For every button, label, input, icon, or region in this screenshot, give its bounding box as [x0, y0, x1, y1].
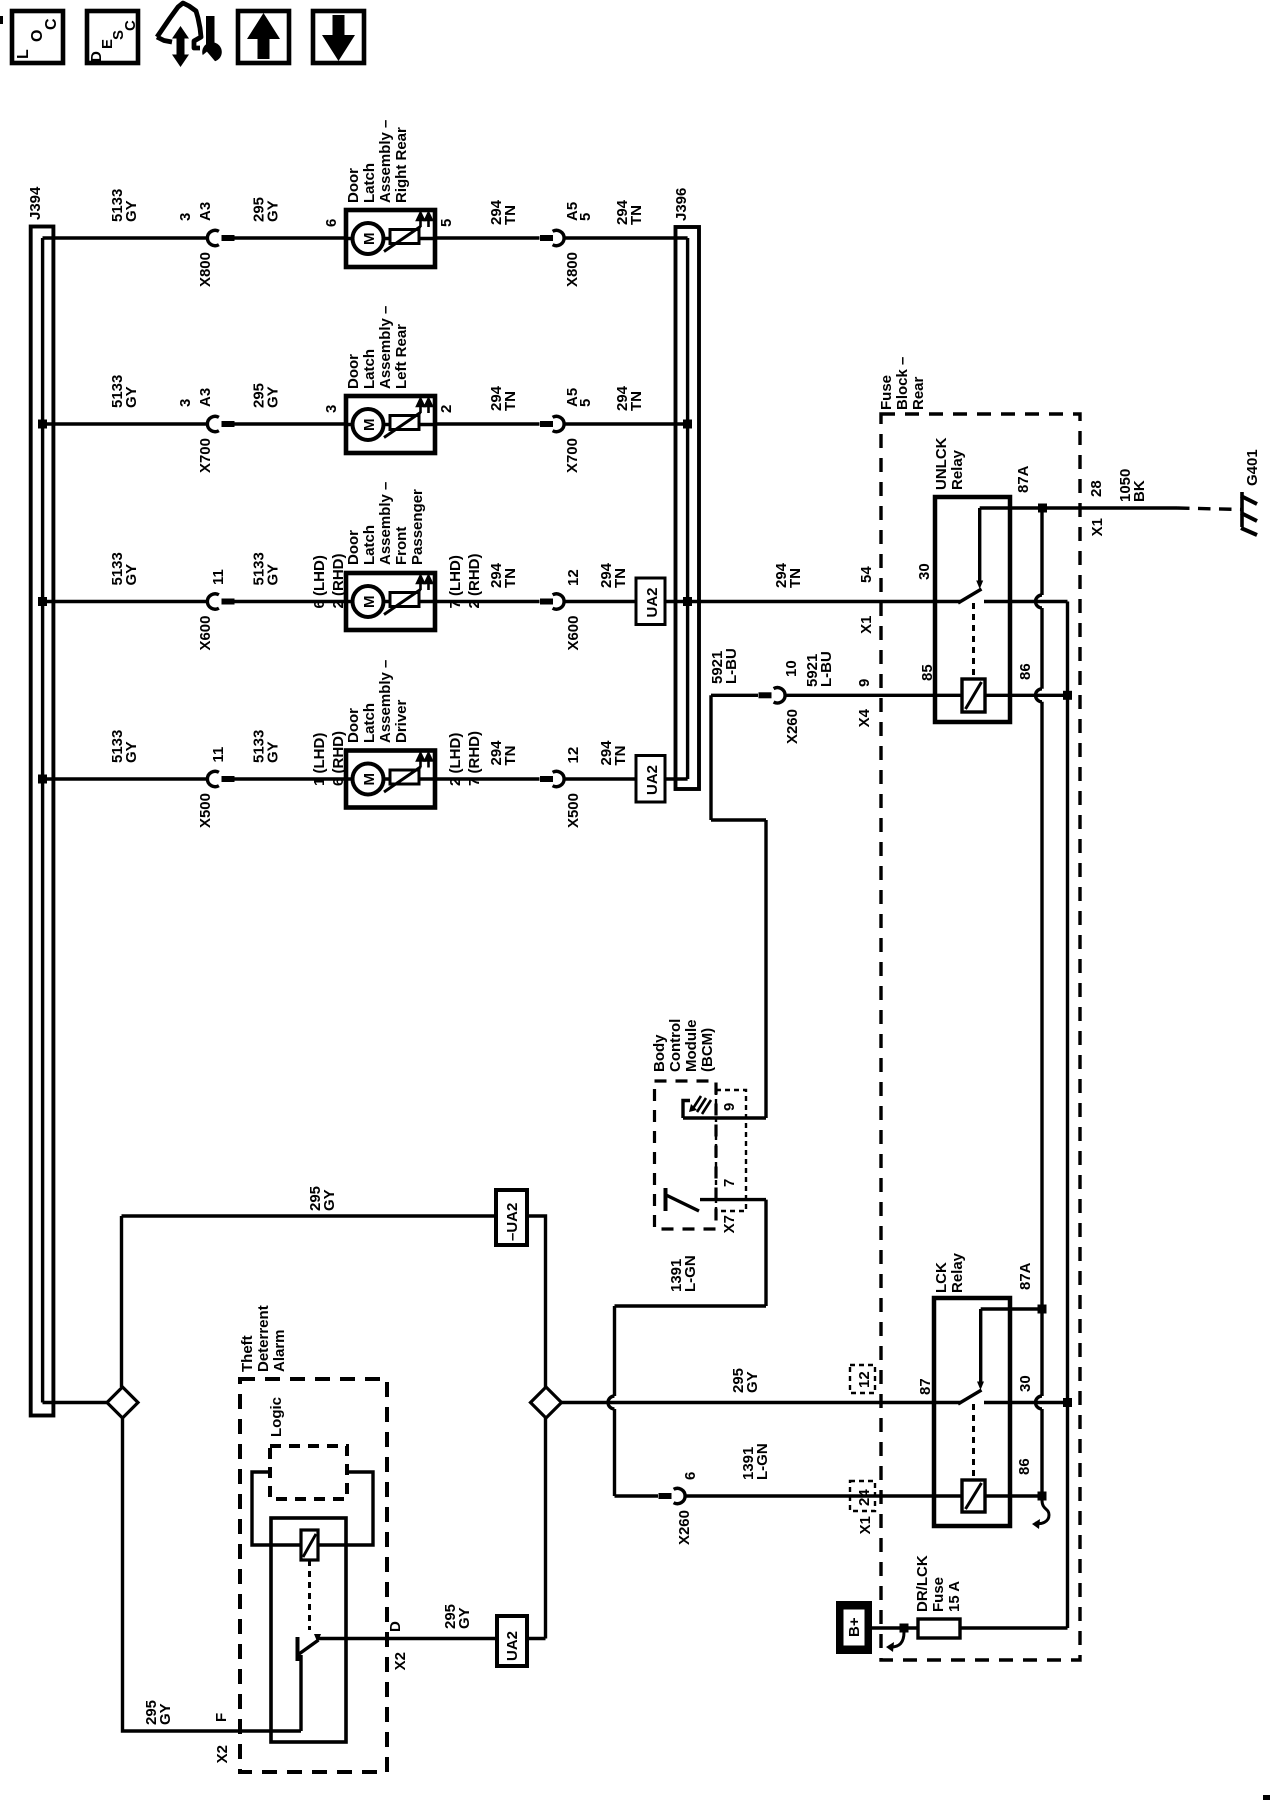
- toolbar icon adjust (outline arrow, double arrow, wrench): [157, 3, 222, 67]
- wire 5921 L-BU: [683, 648, 766, 1118]
- logic clip left: [252, 1472, 301, 1545]
- wire row4 UA2 to J396: [665, 777, 688, 780]
- svg-text:12: 12: [856, 1371, 873, 1388]
- vertical B+ feed rail: [1066, 602, 1069, 1629]
- thermal element row1: [390, 230, 419, 244]
- wire J394 to splice diamond 1: [43, 1401, 108, 1404]
- svg-text:X600: X600: [565, 616, 582, 651]
- LCK coil: [962, 1480, 985, 1512]
- svg-text:24: 24: [856, 1489, 873, 1506]
- wire UNLCK switch output to B+ feed: [984, 600, 1068, 603]
- svg-text:X1: X1: [857, 1516, 874, 1534]
- junction J396 row2: [683, 420, 692, 429]
- svg-text:86: 86: [1016, 1458, 1033, 1475]
- svg-text:5: 5: [438, 219, 455, 227]
- thermal element row3: [390, 593, 419, 607]
- svg-text:UA2: UA2: [644, 587, 661, 617]
- wire splice2 down to theft alarm: [544, 1418, 547, 1639]
- svg-text:D: D: [88, 51, 105, 62]
- door latch assembly front passenger box: [345, 482, 435, 630]
- svg-text:295GY: 295GY: [251, 197, 282, 222]
- motor M row1: [353, 223, 384, 254]
- thermal element row2: [390, 416, 419, 430]
- svg-text:X700: X700: [197, 438, 214, 473]
- wire 294 TN row4: [435, 777, 540, 780]
- connector X260 pin 6: [659, 1493, 672, 1499]
- svg-text:G401: G401: [1244, 449, 1261, 486]
- wire 294 TN row1 to J396: [563, 236, 688, 239]
- wire 294 TN row3: [435, 600, 540, 603]
- svg-text:F: F: [213, 1713, 230, 1722]
- toolbar button move down: [313, 11, 364, 63]
- svg-text:X800: X800: [197, 252, 214, 287]
- svg-text:B+: B+: [846, 1617, 863, 1637]
- svg-text:54: 54: [858, 566, 875, 583]
- svg-text:X800: X800: [564, 252, 581, 287]
- svg-text:J394: J394: [27, 186, 44, 220]
- wire 294 TN row3 to UA2: [563, 600, 636, 603]
- svg-text:C: C: [43, 18, 60, 30]
- svg-text:X500: X500: [565, 793, 582, 828]
- svg-text:X4: X4: [856, 708, 873, 727]
- page corner mark: [1263, 1795, 1270, 1800]
- svg-text:X260: X260: [676, 1510, 693, 1545]
- svg-text:5921L-BU: 5921L-BU: [709, 648, 740, 684]
- wire 5133 GY row1: [43, 236, 209, 239]
- motor M row3: [353, 586, 384, 617]
- door latch assembly driver box: [345, 660, 435, 808]
- BCM driver pin 9: [683, 1101, 690, 1119]
- arrows row2: [417, 399, 424, 413]
- wire 295 GY row1: [235, 236, 347, 239]
- arrows row4: [417, 754, 424, 768]
- svg-text:2: 2: [438, 405, 455, 413]
- theft feed riser: [299, 1655, 302, 1731]
- connector X260 pin 10: [759, 692, 772, 698]
- continuation arrow below LCK 86: [1035, 1500, 1049, 1524]
- splice diamond 1: [107, 1387, 138, 1418]
- wire B+ to fuse: [872, 1626, 918, 1629]
- svg-text:1391L-GN: 1391L-GN: [740, 1443, 771, 1480]
- svg-text:3: 3: [323, 405, 340, 413]
- wire 5133 GY row3: [43, 600, 209, 603]
- svg-text:87A: 87A: [1017, 1262, 1034, 1290]
- toolbar button LOC: [12, 11, 63, 63]
- svg-text:J396: J396: [673, 188, 690, 221]
- wire fuse to feed rail: [960, 1626, 1068, 1629]
- svg-text:D: D: [387, 1621, 404, 1632]
- svg-text:X1: X1: [1089, 518, 1106, 536]
- svg-text:1391L-GN: 1391L-GN: [668, 1255, 699, 1292]
- pin box 24 X1: [850, 1481, 875, 1511]
- svg-text:295GY: 295GY: [307, 1186, 338, 1211]
- wire LCK 30 output: [984, 1401, 1068, 1404]
- battery B+: [836, 1601, 872, 1654]
- UNLCK coil: [962, 679, 985, 712]
- motor M row2: [353, 409, 384, 440]
- wire 5133 GY row4: [43, 777, 209, 780]
- arrows row1: [417, 213, 424, 227]
- svg-text:295GY: 295GY: [251, 383, 282, 408]
- svg-text:11: 11: [210, 569, 227, 585]
- motor M row4: [353, 764, 384, 795]
- wire splice1 up to splice pack -UA2: [120, 1216, 123, 1387]
- wire 1391 L-GN to LCK relay: [684, 1494, 962, 1497]
- svg-text:10: 10: [783, 660, 800, 677]
- svg-text:O: O: [29, 30, 46, 42]
- wire 294 TN row4 to UA2: [563, 777, 636, 780]
- door latch assembly left rear box: [345, 306, 435, 453]
- LCK switch: [958, 1390, 982, 1404]
- svg-text:5921L-BU: 5921L-BU: [804, 651, 835, 687]
- svg-text:30: 30: [916, 563, 933, 580]
- wire 1050 BK: [980, 506, 1177, 509]
- svg-text:12: 12: [565, 747, 582, 764]
- svg-text:A3: A3: [197, 202, 214, 221]
- svg-text:7: 7: [721, 1179, 738, 1187]
- svg-text:UA2: UA2: [644, 765, 661, 795]
- svg-text:X1: X1: [858, 616, 875, 634]
- connector X600 left row3: [207, 594, 218, 609]
- in-line harness connector J394: [27, 186, 53, 1416]
- svg-text:X260: X260: [784, 709, 801, 744]
- wire 295 GY row2: [235, 422, 347, 425]
- svg-text:A3: A3: [197, 388, 214, 407]
- wire LCK 86: [985, 1494, 1042, 1497]
- svg-text:X2: X2: [392, 1652, 409, 1670]
- svg-text:X600: X600: [197, 616, 214, 651]
- svg-text:X2: X2: [214, 1745, 231, 1763]
- junction J396 row3: [683, 597, 692, 606]
- svg-text:3: 3: [177, 399, 194, 407]
- svg-text:12: 12: [565, 569, 582, 586]
- wire 294 TN row1: [435, 236, 540, 239]
- pin box 12 X1: [850, 1365, 875, 1393]
- thermal element row4: [390, 770, 419, 784]
- ground G401: [1241, 449, 1261, 535]
- svg-text:30: 30: [1017, 1375, 1034, 1392]
- wire -UA2 to splice diamond 2: [527, 1216, 546, 1387]
- svg-text:86: 86: [1017, 663, 1034, 680]
- connector X700 right row2: [540, 421, 553, 427]
- fuse block rear box: [881, 414, 1080, 1660]
- LCK coil actuator dashed: [972, 1404, 975, 1480]
- svg-text:UA2: UA2: [504, 1631, 521, 1661]
- svg-text:87A: 87A: [1015, 465, 1032, 493]
- connector X500 right row4: [540, 776, 553, 782]
- svg-text:295GY: 295GY: [730, 1368, 761, 1393]
- svg-text:9: 9: [856, 679, 873, 687]
- svg-text:X7: X7: [721, 1215, 738, 1233]
- BCM pin boxes: [716, 1090, 746, 1211]
- splice pack UA2 row4: [636, 756, 665, 803]
- wire theft alarm output D: [319, 1637, 498, 1640]
- svg-text:Logic: Logic: [268, 1397, 285, 1437]
- wire 294 TN row3 J396 to UNLCK relay: [688, 600, 961, 603]
- UNLCK coil actuator dashed: [972, 603, 975, 679]
- svg-text:295GY: 295GY: [442, 1604, 473, 1629]
- relay UNLCK: [919, 437, 1034, 722]
- junction J394 row3: [38, 597, 47, 606]
- svg-text:–UA2: –UA2: [504, 1203, 521, 1241]
- svg-text:6: 6: [682, 1472, 699, 1480]
- vertical feed 87A rail: [1036, 508, 1043, 1496]
- svg-text:85: 85: [919, 664, 936, 681]
- wire row3 UA2 to J396: [665, 600, 688, 603]
- svg-text:295GY: 295GY: [143, 1700, 174, 1725]
- continuation arrow at B+: [891, 1632, 904, 1647]
- svg-text:C: C: [122, 20, 139, 31]
- page edge mark: [0, 16, 3, 24]
- toolbar button DESC: [87, 11, 139, 63]
- wire splice1 down to theft alarm feed: [123, 1418, 302, 1731]
- theft switch: [296, 1637, 300, 1661]
- UNLCK switch: [958, 589, 982, 603]
- svg-text:M: M: [361, 773, 378, 786]
- BCM switch pin 7: [664, 1188, 668, 1211]
- junction J394 row4: [38, 775, 47, 784]
- theft relay housing: [271, 1518, 346, 1742]
- svg-text:87: 87: [917, 1378, 934, 1395]
- svg-text:M: M: [361, 596, 378, 609]
- door latch assembly right rear box: [345, 120, 435, 267]
- connector X600 right row3: [540, 599, 553, 605]
- connector X800 left row1: [207, 230, 218, 245]
- toolbar button move up: [238, 11, 289, 63]
- splice diamond 2: [531, 1387, 562, 1418]
- BCM box: [655, 1081, 717, 1229]
- wire 5921 L-BU b: [784, 694, 962, 697]
- splice pack UA2 theft: [497, 1616, 527, 1666]
- svg-text:L: L: [15, 49, 32, 59]
- logic clip right: [318, 1472, 373, 1545]
- theft coil actuator dashed: [308, 1560, 311, 1630]
- splice pack UA2 row3: [636, 578, 665, 625]
- wire 294 TN row2: [435, 422, 540, 425]
- svg-text:28: 28: [1088, 480, 1105, 497]
- svg-text:X700: X700: [564, 438, 581, 473]
- wire 1391 L-GN from BCM: [608, 1200, 766, 1496]
- wire 5133 GY row3 b: [235, 600, 347, 603]
- theft relay coil: [301, 1530, 318, 1560]
- svg-text:3: 3: [177, 213, 194, 221]
- wire 294 TN row2 to J396: [563, 422, 688, 425]
- wire UNLCK 86: [985, 694, 1068, 697]
- connector X500 left row4: [207, 771, 218, 786]
- wire UA2 theft to splice2 riser: [527, 1637, 546, 1640]
- wire 5133 GY row2: [43, 422, 209, 425]
- arrows row3: [417, 576, 424, 590]
- svg-text:X500: X500: [197, 793, 214, 828]
- svg-text:M: M: [361, 233, 378, 246]
- svg-text:11: 11: [210, 747, 227, 763]
- splice pack -UA2: [496, 1190, 527, 1245]
- connector X800 right row1: [540, 235, 553, 241]
- svg-text:M: M: [361, 419, 378, 432]
- in-line harness connector J396: [673, 188, 699, 789]
- connector X700 left row2: [207, 416, 218, 431]
- svg-text:9: 9: [721, 1103, 738, 1111]
- junction J394 row2: [38, 420, 47, 429]
- svg-text:6: 6: [323, 219, 340, 227]
- wire 295 GY splice2 to LCK 87: [562, 1401, 962, 1404]
- wire 5133 GY row4 b: [235, 777, 347, 780]
